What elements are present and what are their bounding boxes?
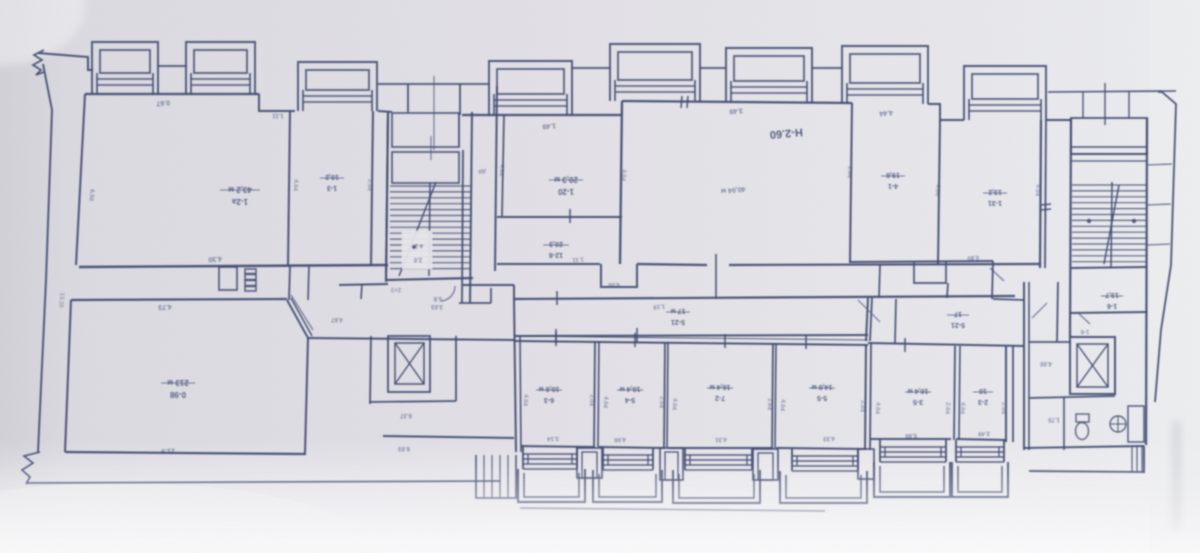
corridor south wall center y=335: [514, 335, 868, 336]
right corridor south wall y=344: [868, 343, 1024, 346]
room 4-20 south wall: [497, 216, 622, 218]
stair vestibule north wall: [463, 284, 514, 286]
toilet symbol: [1076, 414, 1090, 440]
lower rooms partition r4/r5: [865, 344, 866, 450]
shaft bottom wall: [370, 401, 456, 402]
room r5 bottom wall: [871, 438, 951, 440]
wall B8 to right stair block: [1046, 119, 1071, 121]
lower rooms partition r3/r4: [772, 343, 773, 448]
window bay B1: [92, 42, 158, 94]
right outer wall: [1155, 92, 1176, 402]
elevator 2 X diagonal 2: [1077, 344, 1108, 387]
window bay B6: [726, 48, 812, 102]
lower-left room north wall: [71, 299, 287, 300]
right section west wall double: [1023, 282, 1025, 450]
lobby north wall y=284: [339, 284, 388, 285]
room 1-6 door arc: [1078, 313, 1090, 324]
facade hanger line c: [1128, 92, 1130, 118]
left darker band: [0, 30, 80, 510]
top-left pale corner: [0, 0, 85, 65]
small bath box: [1128, 406, 1144, 442]
band partition x=948: [947, 283, 948, 298]
wall under B3 y=111: [378, 111, 392, 112]
facade hanger line b: [1104, 83, 1106, 125]
room 1-2a west wall: [76, 94, 85, 265]
band partition x=880: [879, 265, 880, 298]
stair vestibule south wall: [459, 302, 491, 304]
small room south wall: [1029, 341, 1071, 343]
lobby east wall upper stub: [513, 285, 515, 300]
chamfer wall with door: [287, 300, 308, 338]
tick marks on east wall: [1041, 204, 1051, 205]
room r1 bottom wall: [521, 446, 595, 447]
room 4-20 west wall double: [495, 86, 497, 271]
right outer wall top hook: [1158, 91, 1162, 93]
stair vestibule door jamb: [490, 288, 492, 303]
corridor north wall continuing: [729, 264, 1041, 265]
door notch to corridor: [601, 264, 637, 287]
small room wall right x=993: [992, 261, 993, 299]
partition stub x=290 band: [289, 266, 290, 300]
lower rooms partition r2/r3: [664, 342, 665, 448]
right big room east wall double: [1040, 120, 1041, 268]
corridor north wall center y=298: [514, 296, 1015, 299]
entry south wall: [1024, 446, 1144, 448]
bottom pale fade: [0, 440, 1200, 553]
facade pier wall between B5 and B6: [700, 67, 726, 69]
elevator X diagonal 1: [395, 343, 424, 384]
stair light-well west wall: [407, 84, 409, 112]
lower bay under r2: [593, 448, 662, 502]
bottom wash over ink: [0, 460, 1200, 553]
wall y=115 under B4: [462, 114, 622, 116]
right corridor notch: [914, 262, 946, 283]
right stair dots: [1087, 219, 1091, 223]
stair landing A inner line: [458, 113, 460, 147]
right stair diagonal: [1104, 185, 1119, 264]
room r2 bottom wall: [599, 447, 665, 448]
entrance steps block: [476, 455, 516, 498]
facade step wall right of B2: [259, 94, 295, 111]
stair direction dot: [412, 245, 416, 249]
room 1-2a / 10-2 partition wall: [288, 111, 290, 266]
central rooms south wall / corridor north wall: [637, 264, 707, 265]
right rooms upper band wall x=993-1024: [993, 299, 1024, 300]
partition stub x=309 band: [308, 266, 309, 300]
pier block r4/r5: [858, 449, 874, 479]
small room wall x=1058: [1057, 282, 1058, 342]
elevator 2 inner box: [1077, 344, 1108, 387]
lobby door jamb x=362: [361, 284, 362, 299]
room r4 bottom wall: [776, 448, 866, 449]
lower bay under r6: [952, 440, 1008, 497]
door tick room 4-20: [569, 209, 571, 223]
room 4-1 partition x=852: [850, 103, 852, 262]
stair text patch: [402, 231, 432, 269]
lobby south wall y=338: [308, 338, 514, 340]
stair landing A box: [392, 113, 459, 147]
room 1-2a north wall: [85, 93, 259, 95]
door ticks lower rooms north wall: [555, 332, 557, 346]
small room door leaf: [858, 300, 880, 322]
north boundary wall hook: [38, 53, 93, 70]
central partition x=622: [620, 101, 622, 264]
right stair landing inner sill: [1071, 146, 1147, 148]
stair bottom wall: [386, 278, 473, 280]
window bay B7: [842, 46, 928, 104]
room 10-2 east wall: [371, 111, 373, 266]
wall break mark top-left: [33, 50, 44, 75]
room r6 bottom wall: [956, 439, 1006, 440]
lobby east wall: [514, 298, 516, 452]
window bay B5: [610, 44, 700, 101]
stair axis tick: [430, 136, 432, 160]
stairwell west wall: [386, 112, 388, 282]
right stair landing lines y=154-161: [1071, 153, 1147, 155]
ground line under central bays: [520, 508, 825, 511]
window bay B4: [489, 61, 572, 115]
right strip window marks: [1147, 164, 1172, 165]
lower rooms partition r5/r6: [954, 346, 955, 440]
facade pier wall between B6 and B7: [812, 67, 842, 69]
paper crease smudge bottom-right: [1172, 420, 1181, 530]
elevator shaft outer box: [388, 336, 430, 392]
right stair treads: [1072, 185, 1146, 262]
stair treads: [390, 186, 471, 269]
right edge pale strip: [1150, 0, 1200, 553]
pier block r3/r4: [753, 449, 778, 480]
ground boundary line: [27, 481, 500, 483]
pier block r1/r2: [577, 448, 602, 478]
lower bay under r4: [780, 449, 867, 503]
stair door leaf arc: [441, 286, 455, 301]
right stair bottom wall: [1071, 267, 1147, 268]
west outer wall (slanted): [38, 64, 52, 452]
stairwell east wall double: [462, 150, 463, 303]
sink symbol: [1110, 416, 1126, 432]
right stair center divider: [1111, 182, 1112, 268]
shaft side wall left: [370, 336, 371, 404]
shaft lobby east wall: [455, 336, 457, 401]
chamfer door leaf: [291, 295, 313, 330]
bottom-left boundary break arrow: [22, 452, 40, 484]
corridor wall tick x=557: [556, 291, 558, 305]
stair light-well top wall: [408, 83, 460, 85]
facade pier wall between B1 and B2: [158, 65, 186, 67]
corridor jog wall x=868: [866, 298, 868, 341]
facade wall B3 to stair light-well: [378, 83, 408, 85]
right stair west wall: [1070, 118, 1071, 337]
pier block r2/r3: [660, 448, 683, 480]
right room door diagonal: [990, 268, 1004, 281]
elevator 2 X diagonal 1: [1077, 344, 1108, 387]
elevator shaft inner box: [395, 343, 424, 384]
wc partition x=1064: [1063, 397, 1065, 450]
upper facade line right stair bay: [1048, 91, 1176, 92]
facade hanger line a: [1082, 92, 1084, 118]
stair flight diagonal: [399, 182, 436, 276]
elevator 2 outer box: [1070, 337, 1115, 394]
rooms bottom wall y=266: [79, 265, 388, 267]
room 1-3 partition x=940: [938, 120, 940, 264]
stair center divider: [429, 183, 430, 276]
window bay B8: [964, 66, 1046, 120]
window bay B2: [186, 42, 255, 94]
facade pier wall between B4 and B5: [572, 67, 610, 69]
vent shaft hatched box: [245, 269, 256, 291]
room 12-8 south wall: [497, 263, 600, 265]
lower-left room south wall: [65, 452, 306, 454]
room 1-6 south wall: [1071, 312, 1147, 313]
right corridor north wall y=262: [849, 261, 993, 262]
lobby bottom wall y=436: [383, 436, 514, 438]
lower rooms partition r1/r2: [594, 341, 595, 447]
central room north wall y=102: [622, 101, 852, 103]
right stair east wall: [1146, 118, 1147, 445]
entry ground wall: [1029, 471, 1144, 472]
facade step wall right of B7: [928, 104, 964, 120]
wc partition wall: [1029, 396, 1115, 398]
bottom-left extra pale wash: [0, 483, 380, 553]
corridor south wall ticks: [555, 329, 557, 343]
duct wall left of stairwell: [386, 112, 388, 280]
lower-left room west wall: [65, 300, 71, 452]
small room partition x=896: [895, 299, 896, 343]
vent niche box below wall: [219, 267, 237, 290]
lower rooms north wall double: [514, 336, 868, 340]
right stair landing bay box: [1071, 118, 1147, 154]
lower bay under r1: [518, 447, 585, 502]
small room door leaf right: [1032, 303, 1047, 318]
entry steps hatch: [1132, 447, 1142, 471]
elevator X diagonal 2: [395, 343, 424, 384]
window bay B3: [298, 62, 377, 111]
stair light-well east wall: [459, 84, 461, 115]
door jamb tick x=716: [715, 254, 717, 299]
entry east wall: [1143, 446, 1145, 473]
lower bay under r5: [874, 440, 950, 497]
room r3 bottom wall: [668, 447, 773, 449]
stair window axis line: [433, 76, 435, 150]
lower rooms east wall double: [1005, 346, 1007, 442]
stair landing B box: [392, 152, 459, 183]
lower bay under r3: [673, 448, 760, 503]
facade wall light-well to B4: [460, 83, 489, 85]
lower-left room east wall below chamfer: [305, 338, 308, 453]
